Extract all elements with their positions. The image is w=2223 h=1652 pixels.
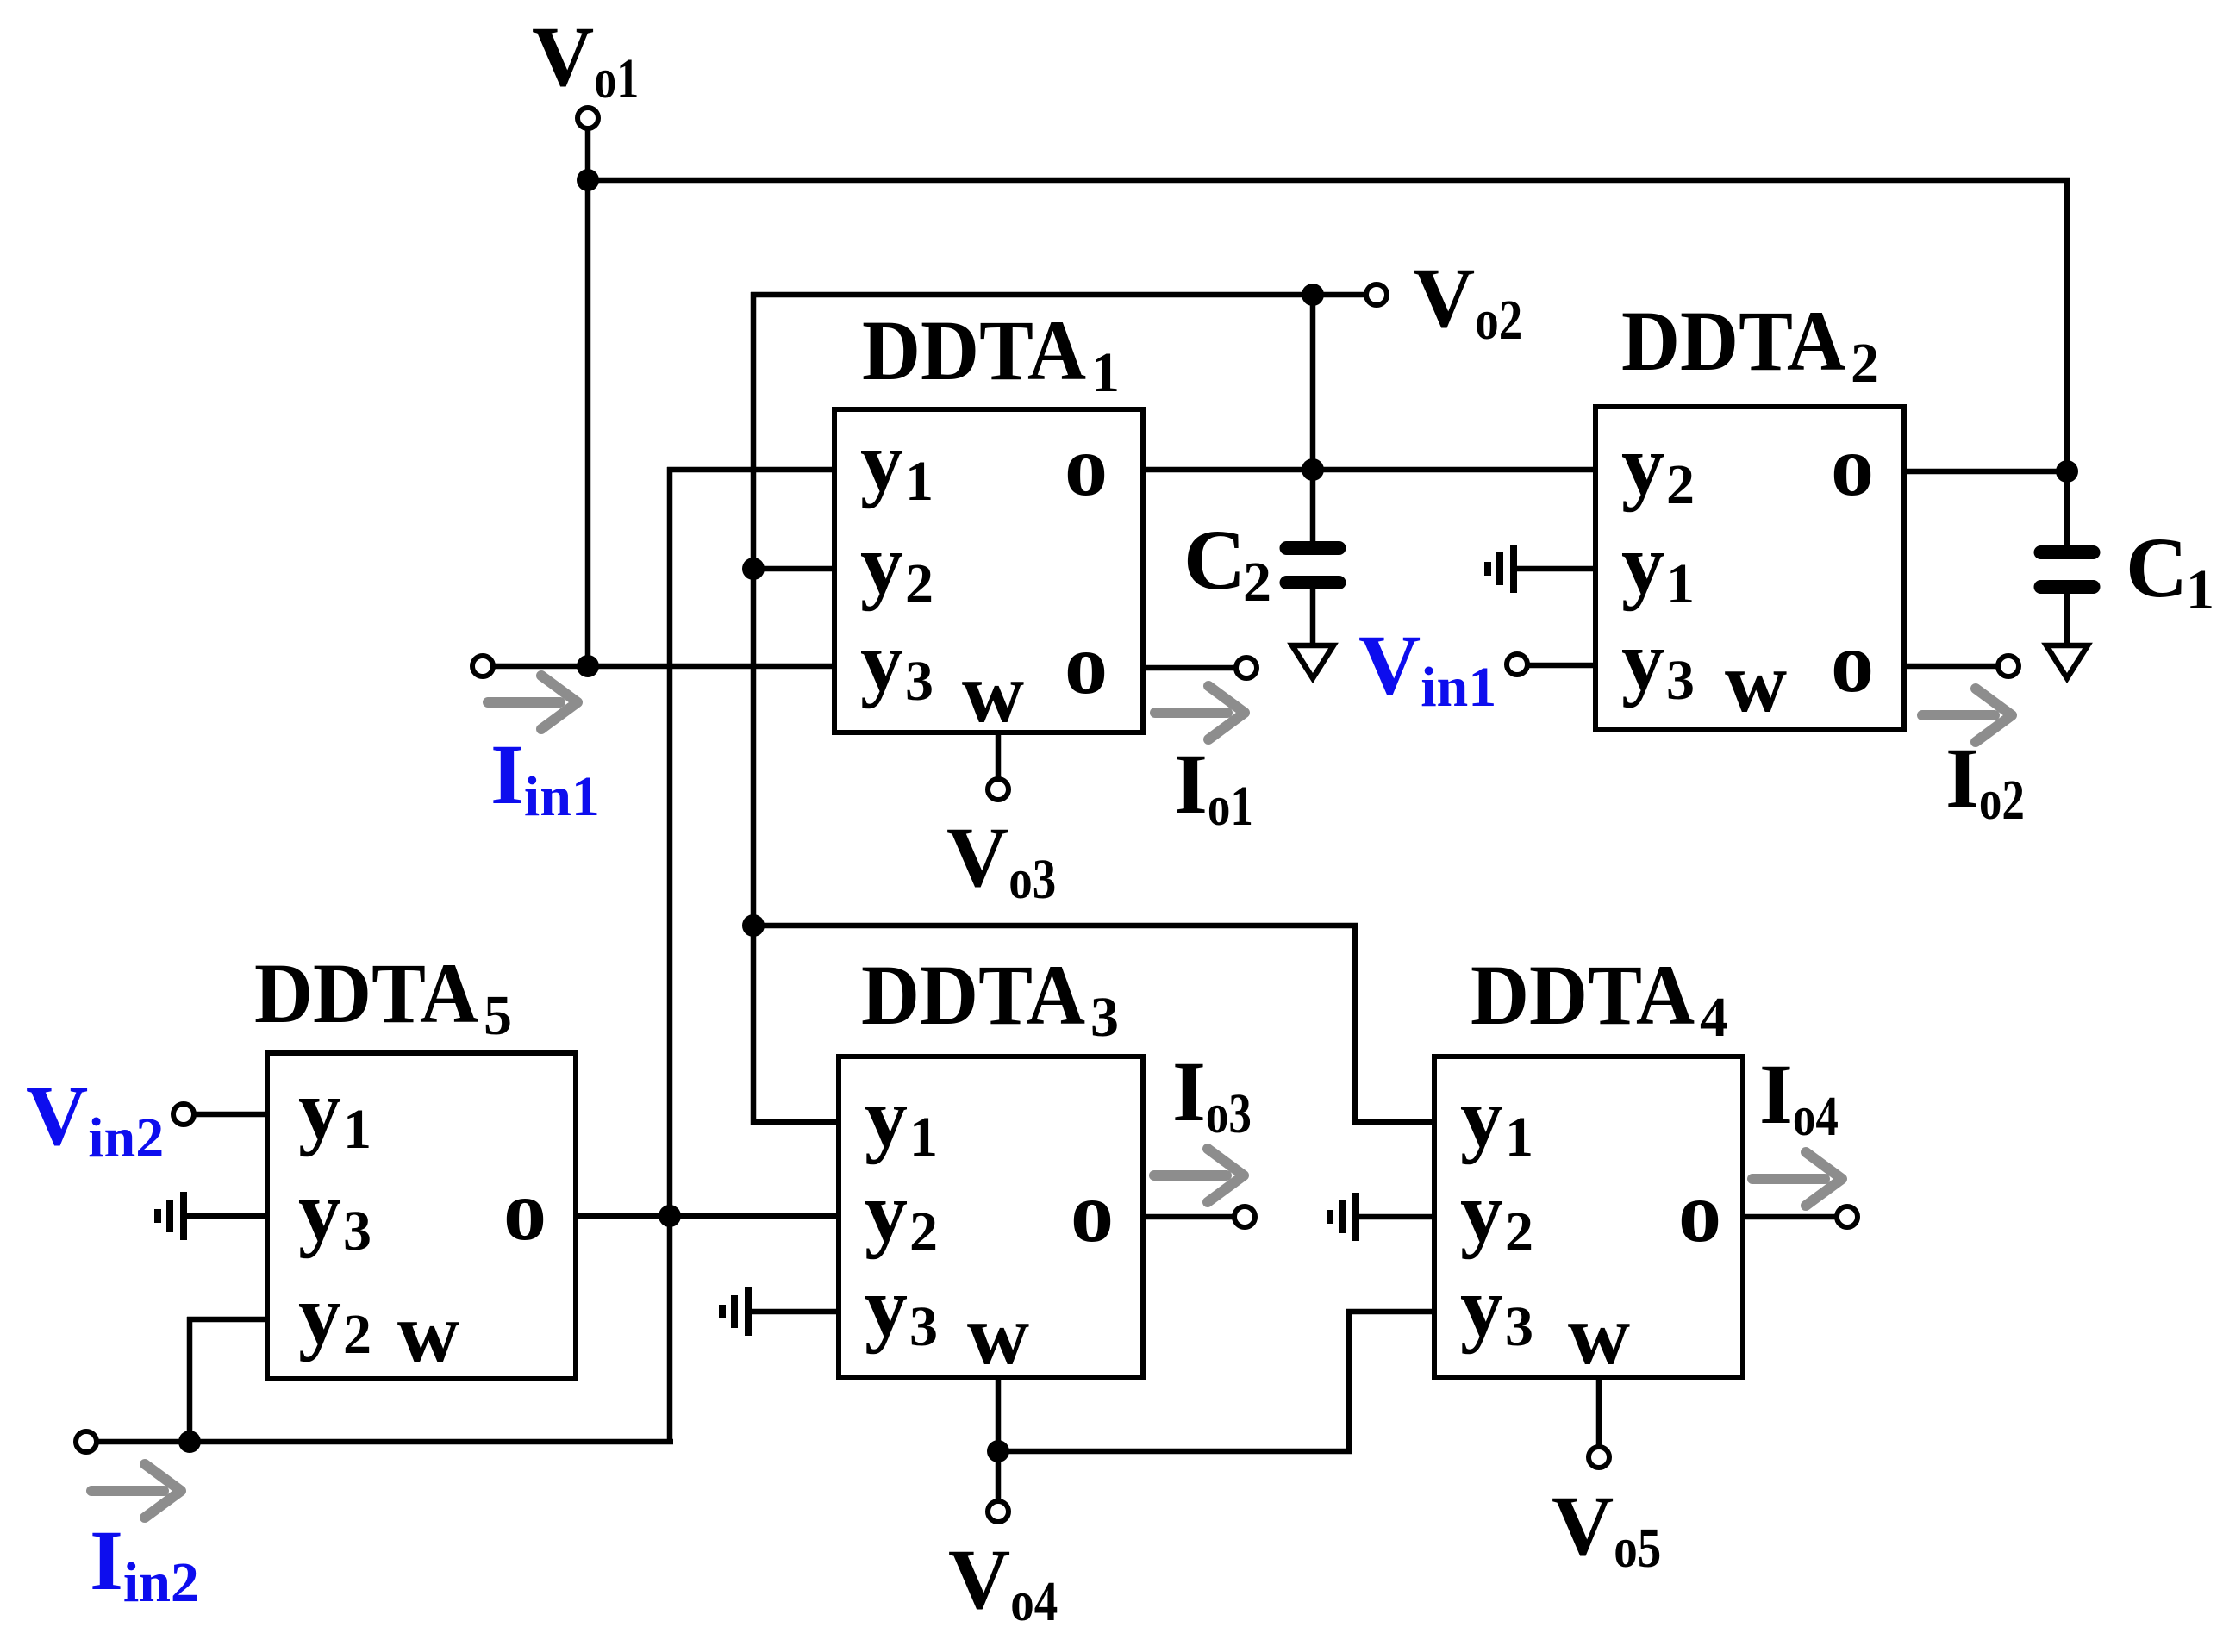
terminal I_o1 xyxy=(1236,658,1257,678)
label DDTA5 xyxy=(254,945,512,1047)
svg-text:y: y xyxy=(298,1163,341,1259)
ground DDTA2 y1 xyxy=(1488,545,1514,593)
svg-text:V: V xyxy=(1552,1478,1614,1574)
svg-text:o2: o2 xyxy=(1979,769,2025,832)
svg-text:y: y xyxy=(860,516,903,612)
svg-text:4: 4 xyxy=(1700,986,1728,1049)
label V_in1 xyxy=(1358,617,1496,719)
wire V_o1 vertical xyxy=(585,129,591,667)
svg-text:w: w xyxy=(967,1287,1029,1382)
arrow I_in2 xyxy=(91,1464,181,1518)
svg-text:2: 2 xyxy=(343,1303,372,1366)
svg-text:I: I xyxy=(1172,1044,1206,1139)
svg-text:y: y xyxy=(1621,417,1664,513)
svg-text:y: y xyxy=(860,614,903,709)
svg-text:w: w xyxy=(1725,634,1787,730)
svg-text:y: y xyxy=(1460,1164,1503,1260)
wire DDTA4 W vertical xyxy=(1596,1377,1602,1447)
wire row to DDTA4 y1 horizontal xyxy=(753,923,1358,929)
svg-text:I: I xyxy=(1759,1046,1793,1142)
svg-text:2: 2 xyxy=(909,1200,938,1263)
pin label DDTA3 y2 xyxy=(865,1164,938,1263)
pin label DDTA4 y3 xyxy=(1460,1259,1533,1358)
svg-text:3: 3 xyxy=(909,1295,938,1358)
svg-text:o: o xyxy=(1065,616,1108,712)
svg-text:DDTA: DDTA xyxy=(862,302,1086,398)
op-amp block DDTA1 xyxy=(834,409,1143,732)
wire C2 vertical lower xyxy=(1310,589,1316,645)
svg-text:3: 3 xyxy=(1505,1295,1533,1358)
wire DDTA2 top O to C1 xyxy=(1904,469,2067,475)
wire I_in1 horizontal xyxy=(493,664,834,670)
label I_o1 xyxy=(1174,736,1253,838)
label V_o5 xyxy=(1552,1478,1661,1580)
node DDTA2 O to C1 junction xyxy=(2056,460,2078,483)
node C2 O-row junction xyxy=(1302,458,1324,481)
wire DDTA2 y1 ground wire xyxy=(1516,566,1595,572)
svg-text:o2: o2 xyxy=(1475,289,1522,352)
wire DDTA1 y2 pin xyxy=(753,566,834,572)
svg-text:1: 1 xyxy=(905,450,934,513)
label I_in2 xyxy=(90,1512,199,1614)
svg-text:o: o xyxy=(1678,1164,1721,1260)
label DDTA4 xyxy=(1471,947,1728,1049)
wire DDTA4 y3 branch vertical xyxy=(1346,1309,1352,1454)
op-amp block DDTA5 xyxy=(267,1053,576,1379)
svg-text:o: o xyxy=(1831,614,1874,710)
svg-text:1: 1 xyxy=(2186,558,2214,621)
svg-text:1: 1 xyxy=(1666,552,1695,615)
label I_o4 xyxy=(1759,1046,1839,1148)
wire DDTA4 y3 pin xyxy=(1346,1309,1434,1315)
svg-text:DDTA: DDTA xyxy=(1471,947,1695,1043)
wire DDTA4 y1 branch vertical xyxy=(1352,923,1358,1125)
label C1 xyxy=(2126,520,2214,621)
svg-text:o: o xyxy=(1831,418,1874,514)
svg-text:3: 3 xyxy=(1666,649,1695,712)
svg-text:y: y xyxy=(865,1164,908,1260)
arrow I_o2 xyxy=(1922,689,2012,742)
wire DDTA1 O to DDTA2 y2 xyxy=(1143,467,1595,473)
svg-text:o: o xyxy=(1065,418,1108,514)
node V_o2 C2 junction xyxy=(1302,284,1324,306)
svg-text:in2: in2 xyxy=(88,1107,164,1169)
arrow I_o1 xyxy=(1155,686,1245,739)
node V_o4 junction xyxy=(987,1440,1009,1462)
svg-text:1: 1 xyxy=(343,1098,372,1161)
wire DDTA4 O to I_o4 xyxy=(1743,1214,1837,1220)
node DDTA1 y2 junction xyxy=(742,558,765,580)
svg-text:V: V xyxy=(532,9,594,104)
svg-text:y: y xyxy=(1621,613,1664,708)
svg-text:o: o xyxy=(503,1163,546,1258)
svg-text:V: V xyxy=(1413,250,1475,346)
capacitor C1 xyxy=(2034,545,2101,594)
svg-text:DDTA: DDTA xyxy=(254,945,478,1041)
svg-text:o5: o5 xyxy=(1614,1517,1661,1580)
terminal I_o4 xyxy=(1837,1206,1858,1227)
node I_in1 V_o1 junction xyxy=(577,655,599,677)
terminal V_in2 xyxy=(173,1104,194,1125)
ground C1 xyxy=(2046,645,2088,678)
svg-text:C: C xyxy=(2126,520,2188,615)
svg-text:2: 2 xyxy=(1243,551,1271,614)
wire C1 branch vertical xyxy=(2064,178,2070,545)
svg-text:3: 3 xyxy=(1090,986,1119,1049)
wire V_o4 to DDTA4 y3 horizontal xyxy=(998,1449,1352,1455)
svg-text:V: V xyxy=(26,1068,88,1163)
wire top horizontal V_o1 to C1 branch xyxy=(588,178,2070,184)
pin label DDTA5 y2 xyxy=(298,1267,372,1366)
wire DDTA4 y2 ground wire xyxy=(1358,1214,1434,1220)
svg-text:y: y xyxy=(860,414,903,509)
pin label DDTA3 y1 xyxy=(865,1069,938,1169)
label V_o4 xyxy=(948,1531,1058,1633)
svg-text:1: 1 xyxy=(1505,1106,1533,1169)
wire DDTA1 y1 pin xyxy=(667,467,834,473)
wire DDTA2 bottom O to I_o2 xyxy=(1904,664,1998,670)
terminal V_in1 xyxy=(1507,654,1527,675)
svg-text:in2: in2 xyxy=(123,1551,199,1614)
arrow I_o4 xyxy=(1752,1152,1842,1206)
svg-text:3: 3 xyxy=(905,650,934,713)
terminal I_in2 xyxy=(76,1431,97,1452)
capacitor C2 xyxy=(1280,541,1346,589)
ground DDTA4 y2 xyxy=(1330,1193,1356,1241)
svg-text:I: I xyxy=(1945,730,1979,826)
svg-text:y: y xyxy=(1460,1069,1503,1165)
svg-text:o: o xyxy=(1071,1164,1114,1260)
terminal V_o4 xyxy=(988,1501,1008,1522)
terminal V_o3 xyxy=(988,779,1008,800)
label V_in2 xyxy=(26,1068,164,1169)
terminal V_o2 xyxy=(1366,284,1387,305)
pin label DDTA2 y2 xyxy=(1621,417,1695,516)
svg-text:V: V xyxy=(1358,617,1421,713)
pin label DDTA5 y3 xyxy=(298,1163,372,1262)
node x874 row junction xyxy=(742,914,765,937)
svg-text:2: 2 xyxy=(905,552,934,615)
terminal I_in1 xyxy=(472,656,493,676)
label DDTA1 xyxy=(862,302,1120,404)
wire V_o2 horizontal xyxy=(751,292,1366,298)
svg-text:o1: o1 xyxy=(1208,775,1253,838)
pin label DDTA3 y3 xyxy=(865,1259,938,1358)
svg-text:in1: in1 xyxy=(524,765,600,828)
svg-text:y: y xyxy=(865,1259,908,1355)
terminal V_o1 xyxy=(578,108,598,128)
wire C2 vertical upper xyxy=(1310,295,1316,541)
pin label DDTA1 y1 xyxy=(860,414,934,513)
svg-text:in1: in1 xyxy=(1421,656,1496,719)
svg-text:o1: o1 xyxy=(594,47,639,110)
label DDTA2 xyxy=(1621,293,1879,395)
arrow I_in1 xyxy=(488,676,578,729)
svg-text:y: y xyxy=(298,1267,341,1362)
wire V_o2 net vertical x874 xyxy=(751,292,757,1125)
svg-text:w: w xyxy=(962,645,1024,740)
wire DDTA3 y3 ground wire xyxy=(751,1309,839,1315)
svg-text:I: I xyxy=(490,726,524,822)
wire DDTA2 y3 pin V_in1 xyxy=(1529,663,1595,669)
pin label DDTA2 y3 xyxy=(1621,613,1695,712)
svg-text:V: V xyxy=(948,1531,1010,1627)
svg-text:o3: o3 xyxy=(1206,1082,1252,1145)
svg-text:y: y xyxy=(1621,516,1664,612)
terminal I_o2 xyxy=(1998,656,2019,676)
node V_o1 junction xyxy=(577,169,599,191)
label V_o1 xyxy=(532,9,639,110)
svg-text:I: I xyxy=(90,1512,123,1608)
wire DDTA3 O to I_o3 xyxy=(1143,1214,1234,1220)
svg-text:1: 1 xyxy=(1091,341,1120,404)
svg-text:o4: o4 xyxy=(1010,1570,1058,1633)
wire DDTA3 W vertical xyxy=(996,1377,1002,1501)
svg-text:y: y xyxy=(865,1069,908,1165)
pin label DDTA1 y2 xyxy=(860,516,934,615)
terminal I_o3 xyxy=(1234,1206,1255,1227)
svg-text:C: C xyxy=(1183,512,1246,608)
op-amp block DDTA2 xyxy=(1595,407,1904,730)
ground C2 xyxy=(1292,645,1333,678)
wire DDTA5 y3 ground wire xyxy=(187,1213,267,1219)
svg-text:o3: o3 xyxy=(1008,848,1056,911)
wire DDTA1 y1 vertical x777 xyxy=(667,467,673,1444)
wire DDTA5 y1 pin V_in2 xyxy=(194,1112,267,1118)
node I_in2 junction xyxy=(178,1431,201,1453)
wire DDTA4 y1 pin xyxy=(1352,1119,1434,1125)
svg-text:o4: o4 xyxy=(1793,1085,1839,1148)
node DDTA5 O junction xyxy=(659,1205,681,1227)
svg-text:2: 2 xyxy=(1851,332,1879,395)
op-amp block DDTA4 xyxy=(1434,1057,1743,1377)
pin label DDTA2 y1 xyxy=(1621,516,1695,615)
pin label DDTA4 y1 xyxy=(1460,1069,1533,1169)
label I_o3 xyxy=(1172,1044,1252,1145)
wire DDTA5 y2 horizontal xyxy=(187,1317,267,1323)
svg-text:w: w xyxy=(1568,1287,1630,1382)
arrow I_o3 xyxy=(1154,1149,1244,1202)
svg-text:3: 3 xyxy=(343,1200,372,1262)
ground DDTA3 y3 xyxy=(722,1287,748,1336)
svg-text:2: 2 xyxy=(1666,453,1695,516)
wire DDTA1 bottom O to I_o1 xyxy=(1143,665,1236,671)
svg-text:1: 1 xyxy=(909,1106,938,1169)
ground DDTA5 y3 xyxy=(158,1192,184,1240)
label I_o2 xyxy=(1945,730,2025,832)
wire DDTA5 y2 vertical xyxy=(187,1317,193,1442)
label V_o2 xyxy=(1413,250,1522,352)
wire DDTA3 y1 pin xyxy=(753,1119,839,1125)
svg-text:w: w xyxy=(397,1285,459,1381)
svg-text:DDTA: DDTA xyxy=(1621,293,1845,389)
wire DDTA1 W vertical xyxy=(996,732,1002,779)
label V_o3 xyxy=(946,809,1056,911)
label DDTA3 xyxy=(861,947,1119,1049)
svg-text:I: I xyxy=(1174,736,1208,832)
svg-text:2: 2 xyxy=(1505,1200,1533,1263)
label I_in1 xyxy=(490,726,600,828)
terminal V_o5 xyxy=(1589,1447,1609,1468)
pin label DDTA1 y3 xyxy=(860,614,934,713)
wire C1 vertical lower xyxy=(2064,594,2070,645)
op-amp block DDTA3 xyxy=(839,1057,1143,1377)
svg-text:V: V xyxy=(946,809,1008,905)
label C2 xyxy=(1183,512,1271,614)
svg-text:y: y xyxy=(298,1062,341,1157)
pin label DDTA5 y1 xyxy=(298,1062,372,1161)
svg-text:y: y xyxy=(1460,1259,1503,1355)
pin label DDTA4 y2 xyxy=(1460,1164,1533,1263)
wire DDTA5 O to DDTA3 y2 xyxy=(576,1213,839,1219)
svg-text:DDTA: DDTA xyxy=(861,947,1085,1043)
wire I_in2 horizontal xyxy=(97,1439,673,1445)
svg-text:5: 5 xyxy=(484,984,512,1047)
